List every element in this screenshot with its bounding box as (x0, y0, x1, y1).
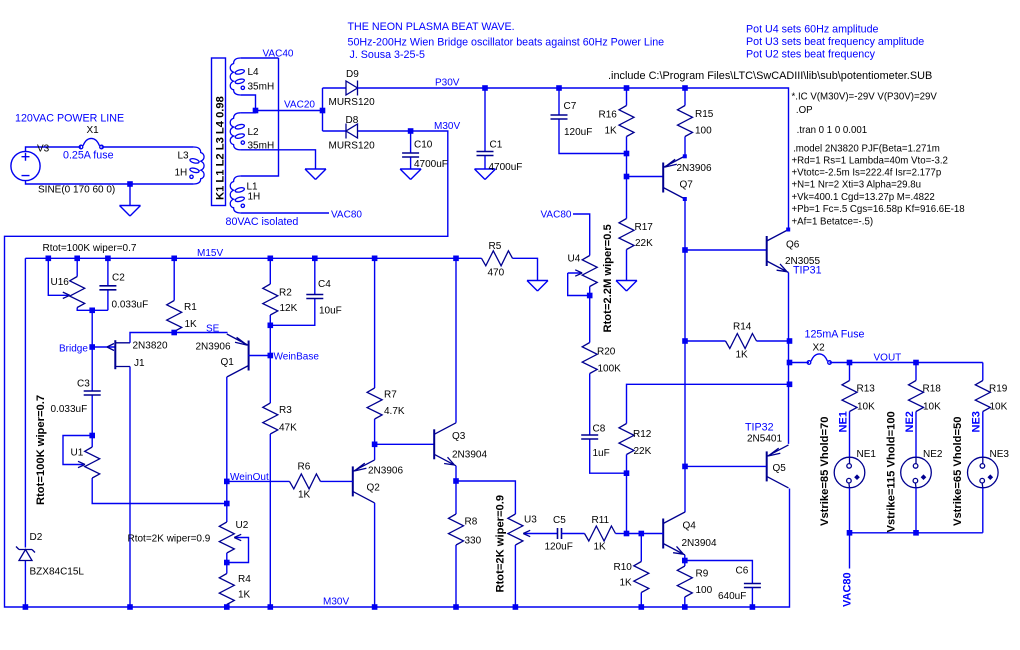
svg-text:Q1: Q1 (221, 357, 235, 368)
svg-text:Bridge: Bridge (59, 344, 88, 355)
junction lamp1 bottom (847, 530, 853, 536)
junction Q7 base (624, 174, 630, 180)
pin square Q7 collector (683, 197, 687, 201)
svg-text:R17: R17 (635, 222, 654, 233)
resistor R10 (640, 534, 642, 608)
svg-text:470: 470 (488, 268, 505, 279)
svg-text:C2: C2 (112, 273, 125, 284)
junction R2 C4 (268, 323, 274, 329)
capacitor C6 (744, 584, 761, 588)
wire net M30V upper run (5, 131, 790, 607)
svg-text:10K: 10K (857, 402, 875, 413)
svg-text:SINE(0 170 60 0): SINE(0 170 60 0) (38, 185, 115, 196)
junction R12 feed (787, 382, 793, 388)
wire Q7 collector down (684, 199, 686, 512)
junction R7 top (372, 255, 378, 261)
junction R1 top (171, 255, 177, 261)
svg-text:K1 L1 L2 L3 L4 0.98: K1 L1 L2 L3 L4 0.98 (215, 96, 227, 200)
potentiometer U3 (508, 514, 523, 545)
svg-text:U16: U16 (51, 277, 70, 288)
junction U4 bottom (587, 293, 593, 299)
potentiometer U16 (77, 258, 108, 310)
svg-text:4700uF: 4700uF (489, 162, 523, 173)
wire Q4 emitter stub (684, 555, 686, 561)
svg-text:R18: R18 (923, 384, 942, 395)
junction R2 top (268, 255, 274, 261)
svg-text:Pot U2 stes beat frequency: Pot U2 stes beat frequency (746, 49, 876, 61)
svg-text:2N3906: 2N3906 (196, 342, 231, 353)
inductor L3 (189, 147, 204, 184)
wire Q3 base (375, 443, 435, 445)
jfet J1 (107, 340, 130, 369)
svg-text:X1: X1 (87, 125, 100, 136)
wire V3 ground stub (129, 184, 131, 206)
svg-text:120uF: 120uF (564, 127, 592, 138)
transistor Q7 pnp (663, 156, 685, 199)
wire J1 gate (92, 346, 115, 348)
fuse X2 (807, 354, 831, 364)
svg-text:+Vtotc=-2.5m Is=222.4f Isr=2.1: +Vtotc=-2.5m Is=222.4f Isr=2.177p (792, 168, 942, 179)
svg-text:0.033uF: 0.033uF (112, 300, 149, 311)
neon lamp NE2 (901, 457, 932, 488)
svg-text:M30V: M30V (323, 597, 349, 608)
svg-text:Pot U3 sets beat frequency amp: Pot U3 sets beat frequency amplitude (746, 36, 924, 48)
junction X2 tap (787, 360, 793, 366)
junction V3 ground (127, 181, 133, 187)
ground at C10 (400, 169, 421, 180)
svg-text:R2: R2 (279, 288, 292, 299)
junction R5 left (453, 255, 459, 261)
neon lamp NE1 (834, 457, 865, 488)
wire D9 D8 vertical (322, 88, 324, 131)
voltage source V3 (11, 151, 40, 180)
svg-text:SE: SE (206, 324, 220, 335)
resistor R14 (685, 340, 790, 342)
svg-text:L4: L4 (248, 67, 260, 78)
resistor R18 (915, 363, 917, 458)
svg-text:0.033uF: 0.033uF (51, 404, 88, 415)
svg-text:35mH: 35mH (248, 82, 275, 93)
resistor R4 (219, 574, 234, 605)
transistor Q4 npn (663, 512, 685, 555)
svg-text:Vstrike=65 Vhold=50: Vstrike=65 Vhold=50 (952, 417, 964, 526)
svg-text:L2: L2 (248, 127, 260, 138)
svg-text:10K: 10K (990, 402, 1008, 413)
resistor R6 (227, 480, 353, 482)
junction rail R4 (224, 604, 230, 610)
svg-text:VAC40: VAC40 (263, 49, 294, 60)
svg-text:THE NEON PLASMA BEAT WAVE.: THE NEON PLASMA BEAT WAVE. (348, 21, 515, 33)
svg-text:VAC80: VAC80 (842, 572, 854, 607)
svg-text:J1: J1 (134, 358, 145, 369)
junction Q6 base node (682, 247, 688, 253)
junction U2 bottom (224, 560, 230, 566)
diode D8 (323, 130, 411, 132)
junction R14 left (682, 338, 688, 344)
svg-text:35mH: 35mH (248, 141, 275, 152)
svg-text:22K: 22K (635, 238, 653, 249)
capacitor C4 (270, 258, 315, 325)
wire Q4 base row (627, 533, 664, 535)
wire lamp bottoms (850, 488, 983, 569)
junction Q5 base node (682, 464, 688, 470)
svg-text:10uF: 10uF (319, 306, 342, 317)
wire J1 drain to SE (130, 333, 174, 343)
junction Q4 emitter (682, 558, 688, 564)
junction U1 top (89, 433, 95, 439)
resistor R9 (684, 561, 686, 608)
svg-text:2N3904: 2N3904 (452, 450, 487, 461)
wiper U3 (525, 533, 558, 535)
wire Q3 emitter down (455, 466, 457, 481)
junction U16 C2 bottom (89, 308, 95, 314)
svg-text:1uF: 1uF (593, 448, 610, 459)
resistor R8 (455, 481, 457, 607)
svg-text:1H: 1H (248, 192, 261, 203)
svg-text:L3: L3 (178, 151, 190, 162)
junction rail Q2 (372, 604, 378, 610)
wire net M15V rail (25, 257, 456, 259)
ground at V3 (120, 206, 141, 217)
svg-text:100: 100 (696, 585, 713, 596)
svg-text:R13: R13 (857, 384, 876, 395)
transistor Q5 pnp (767, 445, 789, 488)
wire bottom of V3 loop (26, 181, 194, 184)
svg-text:C6: C6 (736, 566, 749, 577)
svg-text:M15V: M15V (197, 248, 223, 259)
junction lamp2 bottom (913, 530, 919, 536)
junction WeinBase (268, 353, 274, 359)
svg-text:4700uF: 4700uF (414, 159, 448, 170)
pin square Q7 emitter (683, 154, 687, 158)
wiper U2 (227, 538, 249, 563)
wire L2 bottom to ground (241, 150, 316, 169)
svg-text:120VAC POWER LINE: 120VAC POWER LINE (15, 113, 124, 125)
resistor R2 (269, 258, 271, 325)
junction VAC20 right (320, 108, 326, 114)
junction R10 top (639, 531, 645, 537)
svg-text:Q7: Q7 (680, 180, 694, 191)
wire Q1 collector down (226, 377, 228, 481)
svg-text:R19: R19 (989, 384, 1008, 395)
wire L4 bottom to VAC20 junction (241, 95, 256, 111)
wire Q1 base to WeinBase (248, 355, 270, 357)
svg-text:R12: R12 (633, 429, 652, 440)
wire WeinBase column (269, 325, 271, 403)
inductor L2 (230, 113, 245, 150)
junction rail J1 (127, 604, 133, 610)
junction Bridge (89, 344, 95, 350)
svg-text:VOUT: VOUT (874, 353, 902, 364)
svg-text:U2: U2 (236, 520, 249, 531)
neon lamp NE3 (968, 457, 999, 488)
junction R16 bottom (624, 151, 630, 157)
resistor R13 (849, 363, 851, 458)
ground at C1 (475, 169, 496, 180)
svg-text:Q3: Q3 (452, 431, 466, 442)
wire J1 source down (129, 367, 131, 608)
svg-text:NE3: NE3 (971, 411, 983, 432)
transformer core K1 (212, 58, 226, 206)
svg-text:R8: R8 (465, 517, 478, 528)
svg-text:1H: 1H (175, 168, 188, 179)
ground at L2 (305, 169, 326, 180)
svg-text:X2: X2 (813, 343, 826, 354)
svg-text:Vstrike=115 Vhold=100: Vstrike=115 Vhold=100 (886, 411, 898, 532)
junction U1 wire (224, 501, 230, 507)
wire R12 bottom column (626, 473, 628, 533)
svg-text:C7: C7 (564, 101, 577, 112)
resistor R20 (582, 343, 597, 374)
junction C10 (408, 128, 414, 134)
wire Q5 base (685, 465, 766, 467)
svg-text:1K: 1K (238, 590, 251, 601)
wire net VOUT (830, 362, 983, 364)
svg-text:Q4: Q4 (683, 521, 697, 532)
svg-text:C1: C1 (490, 140, 503, 151)
junction R11 right (624, 531, 630, 537)
svg-text:+Af=1 Betatce=-.5): +Af=1 Betatce=-.5) (792, 216, 874, 227)
resistor R5 (456, 258, 538, 280)
svg-text:MURS120: MURS120 (329, 141, 376, 152)
svg-text:VAC80: VAC80 (331, 210, 362, 221)
svg-text:100K: 100K (598, 364, 622, 375)
transistor Q1 pnp mirrored (227, 334, 249, 377)
svg-text:U1: U1 (71, 448, 84, 459)
resistor R15 (684, 88, 686, 156)
wiper U1 (63, 436, 92, 465)
wiper U16 (48, 258, 68, 295)
svg-text:R7: R7 (384, 390, 397, 401)
junction U16 wiper (46, 255, 52, 261)
svg-text:R5: R5 (489, 241, 502, 252)
svg-text:2N3820: 2N3820 (133, 341, 168, 352)
svg-text:+Rd=1 Rs=1 Lambda=40m Vto=-3.2: +Rd=1 Rs=1 Lambda=40m Vto=-3.2 (792, 156, 948, 167)
svg-text:R4: R4 (238, 574, 251, 585)
junction rail R8 (453, 604, 459, 610)
wire Bridge column (91, 310, 93, 347)
svg-text:NE1: NE1 (838, 411, 850, 432)
svg-text:C5: C5 (553, 515, 566, 526)
svg-text:Rtot=2.2M wiper=0.5: Rtot=2.2M wiper=0.5 (602, 224, 614, 332)
svg-text:V3: V3 (37, 144, 50, 155)
wire L2 top (241, 111, 256, 113)
svg-text:Q5: Q5 (773, 463, 787, 474)
svg-text:2N3906: 2N3906 (368, 466, 403, 477)
svg-text:22K: 22K (634, 446, 652, 457)
svg-text:R15: R15 (695, 109, 714, 120)
junction C8 node (624, 470, 630, 476)
wire R12 top run (627, 384, 790, 423)
svg-text:TIP32: TIP32 (745, 422, 774, 434)
junction rail C6 (750, 604, 756, 610)
transistor Q2 pnp (353, 460, 375, 503)
capacitor C5 (558, 528, 562, 539)
wire Q4 emitter to C6 (685, 561, 753, 584)
svg-text:*.IC V(M30V)=-29V V(P30V)=29V: *.IC V(M30V)=-29V V(P30V)=29V (792, 91, 938, 102)
resistor R16 (626, 88, 628, 154)
svg-text:VAC80: VAC80 (541, 210, 572, 221)
capacitor C8 (590, 374, 627, 474)
svg-text:VAC20: VAC20 (284, 100, 315, 111)
wire R8 to U3 top (456, 481, 515, 514)
svg-text:R11: R11 (592, 515, 610, 526)
wire VAC40 top (241, 57, 279, 59)
svg-text:R20: R20 (597, 347, 616, 358)
transistor Q3 npn (434, 423, 456, 466)
svg-text:D2: D2 (30, 532, 43, 543)
ground at R17 (616, 281, 637, 292)
svg-text:U4: U4 (568, 254, 581, 265)
svg-text:640uF: 640uF (718, 591, 746, 602)
svg-text:1K: 1K (594, 542, 607, 553)
wire L1 bottom to VAC80 label (241, 212, 329, 214)
svg-text:R3: R3 (279, 405, 292, 416)
svg-text:C8: C8 (593, 424, 606, 435)
pin square Q6 collector (786, 228, 790, 232)
junction rail U3 (513, 604, 519, 610)
inductor L1 (230, 176, 245, 213)
svg-text:Rtot=100K wiper=0.7: Rtot=100K wiper=0.7 (35, 395, 47, 505)
svg-text:WeinBase: WeinBase (274, 352, 320, 363)
svg-text:D8: D8 (346, 115, 359, 126)
wire Q2 emitter up (374, 444, 376, 460)
junction C4 top (312, 255, 318, 261)
resistor R7 (374, 258, 376, 444)
svg-text:D9: D9 (346, 69, 359, 80)
svg-text:Vstrike=85 Vhold=70: Vstrike=85 Vhold=70 (819, 417, 831, 526)
svg-text:+Pb=1 Fc=.5 Cgs=16.58p Kf=916.: +Pb=1 Fc=.5 Cgs=16.58p Kf=916.6E-18 (792, 204, 965, 215)
svg-text:C10: C10 (414, 140, 433, 151)
svg-text:Q6: Q6 (786, 240, 800, 251)
wire net VAC20 (256, 110, 323, 112)
junction R14 right (787, 338, 793, 344)
svg-text:50Hz-200Hz Wien Bridge oscilla: 50Hz-200Hz Wien Bridge oscillator beats … (348, 36, 665, 48)
junction VOUT R18 (913, 360, 919, 366)
junction rail R10 (639, 604, 645, 610)
wire WeinOut to U2 (226, 481, 228, 522)
svg-text:.tran 0 1 0 0.001: .tran 0 1 0 0.001 (797, 125, 868, 136)
diode D9 (323, 87, 347, 89)
svg-text:125mA Fuse: 125mA Fuse (805, 329, 865, 341)
junction VOUT R13 (847, 360, 853, 366)
wiper U4 (568, 273, 590, 296)
wire R16 bottom to Q7 base column (627, 154, 664, 177)
svg-text:R6: R6 (298, 462, 311, 473)
junction C2 top (105, 255, 111, 261)
svg-text:R14: R14 (733, 322, 752, 333)
svg-text:1K: 1K (620, 578, 633, 589)
potentiometer U2 (219, 522, 234, 553)
svg-text:100: 100 (695, 126, 712, 137)
svg-text:NE1: NE1 (857, 449, 877, 460)
capacitor C10 (410, 131, 412, 169)
junction D2 bottom rail (23, 604, 29, 610)
svg-text:C4: C4 (318, 279, 331, 290)
svg-text:BZX84C15L: BZX84C15L (30, 567, 85, 578)
resistor R1 (173, 258, 175, 332)
potentiometer U4 (573, 214, 590, 296)
potentiometer U1 (92, 436, 227, 504)
junction WeinOut (224, 479, 230, 485)
wire net P30V rail (358, 88, 789, 229)
svg-text:NE2: NE2 (904, 411, 916, 432)
svg-text:1K: 1K (185, 319, 198, 330)
wire M15V left column (24, 258, 26, 607)
svg-text:1K: 1K (605, 126, 618, 137)
capacitor C1 (484, 88, 486, 169)
junction U16 top (74, 255, 80, 261)
junction R16 top (624, 85, 630, 91)
svg-text:4.7K: 4.7K (384, 406, 405, 417)
svg-text:NE3: NE3 (990, 449, 1010, 460)
svg-text:2N3904: 2N3904 (682, 538, 717, 549)
svg-text:80VAC isolated: 80VAC isolated (226, 216, 299, 228)
svg-text:+N=1 Nr=2 Xti=3 Alpha=29.8u: +N=1 Nr=2 Xti=3 Alpha=29.8u (792, 180, 922, 191)
svg-text:R1: R1 (184, 302, 197, 313)
svg-text:WeinOut: WeinOut (230, 472, 269, 483)
svg-text:2N5401: 2N5401 (747, 434, 782, 445)
wire VAC40 vertical to L1 top (241, 58, 279, 176)
wire Q6 emitter down (788, 273, 790, 444)
capacitor C2 (107, 258, 109, 310)
resistor R12 (619, 424, 634, 455)
svg-text:47K: 47K (279, 423, 297, 434)
svg-text:+Vk=400.1 Cgd=13.27p M=.4822: +Vk=400.1 Cgd=13.27p M=.4822 (792, 192, 935, 203)
svg-text:Rtot=2K wiper=0.9: Rtot=2K wiper=0.9 (495, 495, 507, 593)
fuse X1 (79, 138, 103, 148)
svg-text:.OP: .OP (796, 105, 813, 116)
svg-text:1K: 1K (736, 350, 749, 361)
svg-text:R10: R10 (614, 562, 633, 573)
resistor R17 (626, 177, 628, 281)
resistor R11 (585, 526, 616, 541)
wire net SE (174, 332, 227, 334)
svg-text:120uF: 120uF (545, 542, 573, 553)
svg-text:J. Sousa 3-25-5: J. Sousa 3-25-5 (350, 49, 426, 61)
junction VAC20 left (253, 108, 259, 114)
junction R8 top (453, 478, 459, 484)
zener diode D2 (16, 547, 35, 561)
svg-text:.model 2N3820 PJF(Beta=1.271m: .model 2N3820 PJF(Beta=1.271m (793, 143, 940, 154)
wire Q3 collector up (455, 258, 457, 423)
junction rail R9 (682, 604, 688, 610)
svg-text:TIP31: TIP31 (793, 265, 822, 277)
junction R7 bottom (372, 442, 378, 448)
svg-text:Rtot=100K wiper=0.7: Rtot=100K wiper=0.7 (43, 243, 137, 254)
svg-text:10K: 10K (923, 402, 941, 413)
svg-text:C3: C3 (77, 379, 90, 390)
wire Q2 collector down (374, 503, 376, 607)
junction rail R3 (268, 604, 274, 610)
svg-text:0.25A fuse: 0.25A fuse (63, 150, 114, 162)
svg-text:Pot U4 sets 60Hz amplitude: Pot U4 sets 60Hz amplitude (746, 24, 879, 36)
ground at R5 (527, 281, 548, 292)
junction C7 top (556, 85, 562, 91)
svg-text:.include C:\Program Files\LTC\: .include C:\Program Files\LTC\SwCADIII\l… (608, 70, 932, 82)
svg-text:MURS120: MURS120 (329, 97, 376, 108)
svg-text:330: 330 (465, 536, 482, 547)
svg-text:2N3906: 2N3906 (677, 163, 712, 174)
junction R15 top (682, 85, 688, 91)
capacitor C7 (559, 88, 627, 154)
transistor Q6 npn (767, 230, 789, 273)
wire to fuse X2 (790, 362, 810, 364)
svg-text:P30V: P30V (435, 78, 460, 89)
junction C1 (482, 85, 488, 91)
svg-text:M30V: M30V (434, 121, 460, 132)
wire top of V3 loop to fuse and L3 (26, 147, 194, 151)
